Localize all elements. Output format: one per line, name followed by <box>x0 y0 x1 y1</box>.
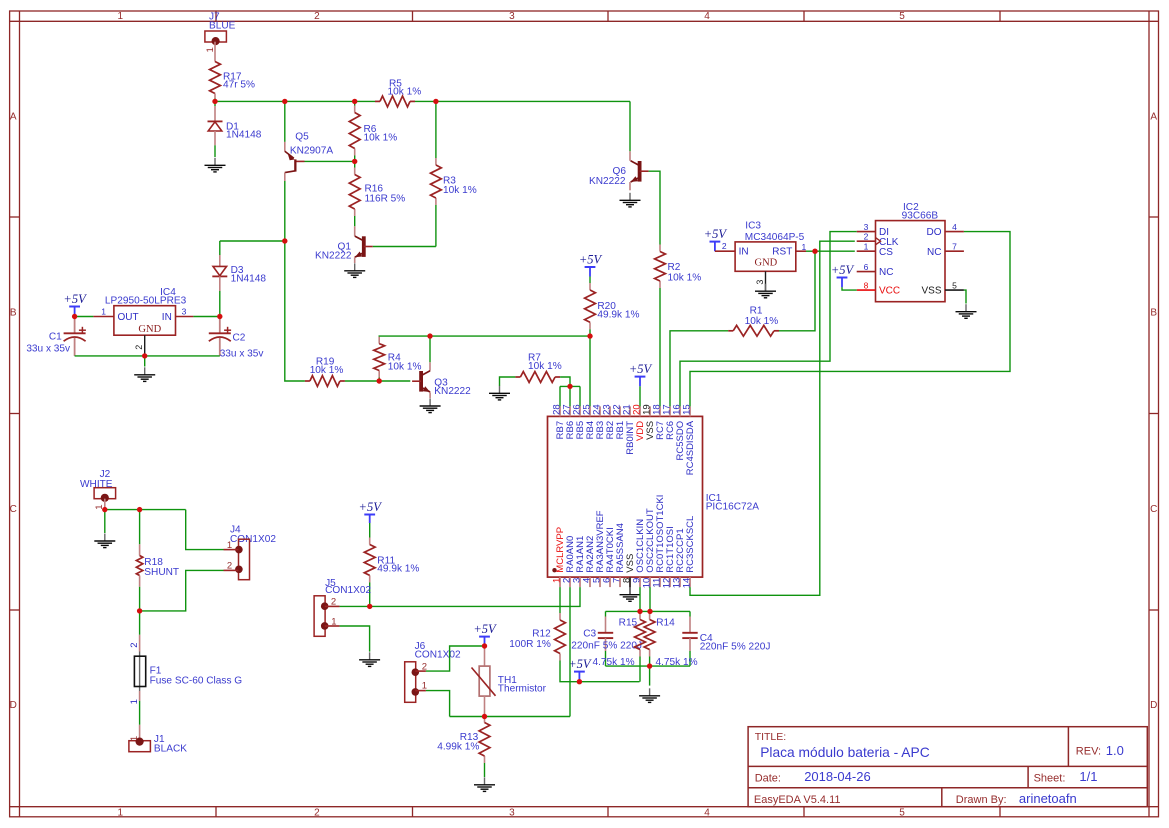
svg-text:116R 5%: 116R 5% <box>365 193 406 204</box>
svg-text:B: B <box>10 308 17 319</box>
svg-text:PIC16C72A: PIC16C72A <box>706 502 760 513</box>
svg-text:5: 5 <box>899 11 905 22</box>
svg-text:8: 8 <box>864 280 869 290</box>
svg-text:R2: R2 <box>668 262 681 273</box>
svg-text:3: 3 <box>509 807 515 818</box>
svg-text:1.0: 1.0 <box>1106 743 1124 758</box>
svg-text:2018-04-26: 2018-04-26 <box>804 769 871 784</box>
svg-text:CON1X02: CON1X02 <box>325 585 371 596</box>
svg-text:49.9k 1%: 49.9k 1% <box>377 564 419 575</box>
svg-text:Sheet:: Sheet: <box>1034 772 1066 784</box>
svg-text:REV:: REV: <box>1076 745 1101 757</box>
svg-text:1: 1 <box>129 699 140 704</box>
svg-text:93C66B: 93C66B <box>902 211 939 222</box>
svg-text:Thermistor: Thermistor <box>498 683 547 694</box>
svg-text:1N4148: 1N4148 <box>231 274 267 285</box>
svg-text:Drawn By:: Drawn By: <box>956 794 1007 806</box>
svg-text:10k 1%: 10k 1% <box>668 272 702 283</box>
svg-text:10k 1%: 10k 1% <box>388 87 422 98</box>
svg-text:1: 1 <box>101 307 106 317</box>
svg-text:100R 1%: 100R 1% <box>509 639 551 650</box>
svg-text:1: 1 <box>422 681 427 692</box>
svg-text:3: 3 <box>509 11 515 22</box>
svg-text:A: A <box>1150 112 1157 123</box>
svg-text:10k 1%: 10k 1% <box>528 361 562 372</box>
svg-text:Fuse SC-60 Class G: Fuse SC-60 Class G <box>150 676 243 687</box>
svg-text:7: 7 <box>952 241 957 251</box>
svg-text:+5V: +5V <box>473 622 497 636</box>
svg-text:MC34064P-5: MC34064P-5 <box>745 232 805 243</box>
svg-text:2: 2 <box>314 11 320 22</box>
svg-text:10k 1%: 10k 1% <box>443 185 477 196</box>
svg-text:KN2907A: KN2907A <box>290 146 333 157</box>
svg-text:KN2222: KN2222 <box>589 176 626 187</box>
svg-text:+5V: +5V <box>568 657 592 671</box>
svg-text:VCC: VCC <box>879 286 900 297</box>
svg-text:220nF 5% 220J: 220nF 5% 220J <box>571 640 642 651</box>
svg-text:+5V: +5V <box>579 252 603 266</box>
svg-text:NC: NC <box>879 267 893 278</box>
svg-text:IC3: IC3 <box>745 220 761 231</box>
svg-text:3: 3 <box>755 280 765 285</box>
svg-text:1/1: 1/1 <box>1079 769 1097 784</box>
svg-text:10k 1%: 10k 1% <box>310 365 344 376</box>
svg-text:2: 2 <box>722 241 727 251</box>
svg-text:NC: NC <box>927 247 941 258</box>
svg-text:RST: RST <box>772 247 792 258</box>
svg-text:DO: DO <box>927 227 942 238</box>
svg-text:2: 2 <box>134 345 144 350</box>
svg-text:BLACK: BLACK <box>154 744 187 755</box>
svg-text:R1: R1 <box>750 306 763 317</box>
svg-text:1: 1 <box>118 11 124 22</box>
svg-text:15: 15 <box>682 404 693 415</box>
svg-text:D: D <box>1150 700 1157 711</box>
svg-text:1: 1 <box>864 241 869 251</box>
svg-text:4: 4 <box>704 11 710 22</box>
svg-text:33u x 35v: 33u x 35v <box>220 349 265 360</box>
svg-text:2: 2 <box>227 561 232 572</box>
svg-text:EasyEDA V5.4.11: EasyEDA V5.4.11 <box>754 794 841 806</box>
svg-text:1: 1 <box>802 242 807 252</box>
svg-text:2: 2 <box>422 661 427 672</box>
svg-text:C: C <box>1150 504 1157 515</box>
svg-text:A: A <box>10 112 17 123</box>
svg-text:KN2222: KN2222 <box>315 251 352 262</box>
svg-text:RC4SDISDA: RC4SDISDA <box>685 420 696 475</box>
svg-text:+5V: +5V <box>629 362 653 376</box>
svg-text:1N4148: 1N4148 <box>226 130 262 141</box>
svg-text:5: 5 <box>952 280 957 290</box>
svg-text:3: 3 <box>182 307 187 317</box>
svg-text:IN: IN <box>739 247 749 258</box>
svg-text:10k 1%: 10k 1% <box>388 361 422 372</box>
svg-text:220nF 5% 220J: 220nF 5% 220J <box>700 641 771 652</box>
svg-text:B: B <box>1150 308 1157 319</box>
svg-text:GND: GND <box>755 257 778 268</box>
svg-text:Q5: Q5 <box>295 131 309 142</box>
svg-text:C2: C2 <box>233 333 246 344</box>
svg-text:CON1X02: CON1X02 <box>415 649 461 660</box>
svg-text:5: 5 <box>899 807 905 818</box>
svg-text:D: D <box>10 700 17 711</box>
svg-text:CS: CS <box>879 247 893 258</box>
svg-text:arinetoafn: arinetoafn <box>1019 791 1077 806</box>
svg-text:OUT: OUT <box>118 312 139 323</box>
svg-text:3: 3 <box>864 222 869 232</box>
svg-text:R12: R12 <box>532 629 551 640</box>
svg-text:RC3SCKSCL: RC3SCKSCL <box>685 516 696 573</box>
svg-text:Placa módulo bateria - APC: Placa módulo bateria - APC <box>760 745 930 760</box>
svg-text:1: 1 <box>227 540 232 551</box>
svg-text:2: 2 <box>314 807 320 818</box>
svg-text:+5V: +5V <box>63 292 87 306</box>
svg-text:VSS: VSS <box>921 286 941 297</box>
svg-text:R15: R15 <box>619 617 638 628</box>
svg-text:SHUNT: SHUNT <box>144 567 179 578</box>
svg-text:R14: R14 <box>656 617 675 628</box>
svg-text:IN: IN <box>162 312 172 323</box>
svg-text:GND: GND <box>138 324 161 335</box>
svg-text:C: C <box>10 504 17 515</box>
svg-text:2: 2 <box>129 643 140 648</box>
svg-text:Date:: Date: <box>755 772 781 784</box>
svg-text:6: 6 <box>864 262 869 272</box>
svg-text:47r 5%: 47r 5% <box>223 80 255 91</box>
svg-text:2: 2 <box>331 596 336 607</box>
svg-text:2: 2 <box>864 231 869 241</box>
svg-text:4.99k 1%: 4.99k 1% <box>437 742 479 753</box>
svg-text:14: 14 <box>682 578 693 589</box>
svg-text:+5V: +5V <box>704 227 728 241</box>
svg-text:4: 4 <box>704 807 710 818</box>
svg-text:10k 1%: 10k 1% <box>364 132 398 143</box>
svg-text:33u x 35v: 33u x 35v <box>26 344 71 355</box>
svg-text:10k 1%: 10k 1% <box>745 316 779 327</box>
svg-text:LP2950-50LPRE3: LP2950-50LPRE3 <box>105 296 187 307</box>
svg-text:1: 1 <box>205 47 216 52</box>
svg-text:C3: C3 <box>583 628 596 639</box>
svg-text:C1: C1 <box>49 332 62 343</box>
svg-text:1: 1 <box>331 616 336 627</box>
svg-text:+5V: +5V <box>359 500 383 514</box>
svg-text:4: 4 <box>952 222 957 232</box>
svg-text:CON1X02: CON1X02 <box>230 534 276 545</box>
svg-text:+5V: +5V <box>831 263 855 277</box>
svg-text:TITLE:: TITLE: <box>755 731 787 743</box>
svg-text:BLUE: BLUE <box>209 21 236 32</box>
svg-text:49.9k 1%: 49.9k 1% <box>597 310 639 321</box>
svg-text:1: 1 <box>118 807 124 818</box>
svg-text:KN2222: KN2222 <box>434 386 471 397</box>
